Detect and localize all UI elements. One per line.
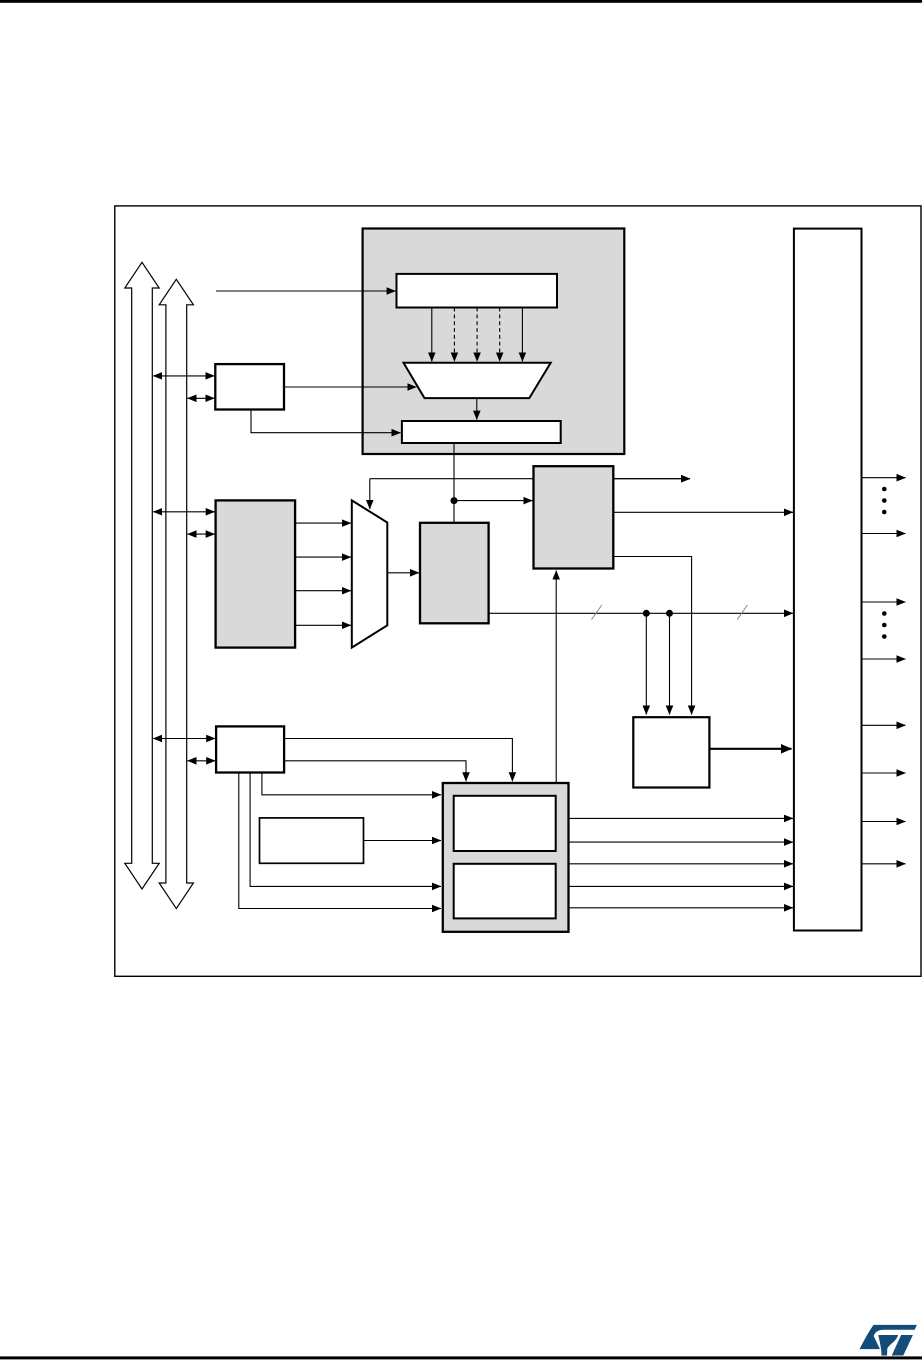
wire shifter to register block	[613, 511, 793, 513]
pin arrow 1	[862, 477, 906, 479]
opcode register U1	[397, 274, 558, 308]
bus arrow 1 (tall double-headed)	[125, 262, 159, 889]
interrupt box C	[633, 717, 709, 787]
box B	[216, 726, 284, 772]
data buffer container (gray)	[443, 783, 569, 932]
decode mux (trapezoid)	[404, 363, 551, 398]
pin arrow 5	[862, 724, 906, 726]
bottom page rule	[0, 1356, 922, 1359]
double wire bus2 to register file	[188, 533, 215, 535]
wire box B to buffer left 1	[262, 773, 441, 795]
wire register mux to ALU	[387, 572, 419, 574]
shifter (gray)	[534, 466, 614, 568]
pin arrow 7	[862, 821, 906, 823]
wire buffer to register block 2	[569, 841, 794, 843]
wire buffer to register block 4	[569, 885, 794, 887]
wire dot2 down to interrupt box	[669, 613, 671, 714]
MDR inner box 1	[454, 796, 556, 851]
wire box D to buffer	[364, 840, 442, 842]
wire shifter out top	[613, 478, 690, 480]
wire branch down into register mux	[369, 479, 371, 509]
wire ALU result bus	[489, 612, 793, 614]
junction dot bus 1	[643, 610, 650, 617]
wire into opcode register	[216, 290, 396, 292]
wire register out 2	[295, 556, 351, 558]
bold wire interrupt to register block	[709, 748, 791, 750]
ST logo	[860, 1325, 917, 1356]
MAR inner box 2	[454, 864, 556, 919]
pin dots group 2	[882, 611, 887, 616]
wire decode mux output	[476, 398, 478, 420]
register file (gray)	[216, 500, 296, 647]
wire decode line 4 (dashed)	[499, 308, 501, 362]
figure frame	[115, 206, 921, 976]
wire decode line 5	[521, 308, 523, 362]
wire decode line 2 (dashed)	[453, 308, 455, 362]
register mux (trapezoid)	[352, 500, 388, 647]
wire register out 4	[295, 624, 351, 626]
wire box B to buffer top 2	[284, 761, 466, 781]
bus width slash 2	[737, 605, 747, 620]
junction dot bus 2	[666, 610, 673, 617]
wire box A to U2	[251, 410, 401, 433]
wire box B to buffer top 1	[284, 739, 512, 782]
wire register out 1	[295, 522, 351, 524]
wire U2 output down	[453, 443, 455, 501]
wire box B to buffer left 2	[250, 773, 441, 887]
wire decode line 3 (dashed)	[476, 308, 478, 362]
wire junction to shifter	[454, 500, 532, 502]
control block (gray)	[363, 229, 625, 455]
wire decode line 1	[431, 308, 433, 362]
I/O register block (tall)	[794, 229, 862, 931]
double wire bus2 to box A	[188, 397, 215, 399]
wire buffer to register block 5	[569, 907, 794, 909]
pin dots group 1	[882, 487, 887, 492]
wire from box A to decode mux	[284, 386, 416, 388]
bus width slash 1	[592, 605, 602, 620]
ALU (gray)	[420, 523, 489, 624]
wire register out 3	[295, 590, 351, 592]
wire horizontal branch with end arrow	[370, 478, 690, 480]
pin arrow 8	[862, 863, 906, 865]
wire box B to buffer left 3	[239, 773, 441, 909]
wire MDR up to shifter	[555, 571, 557, 783]
double wire bus1 to register file	[153, 511, 215, 513]
micro-instruction register U2	[402, 421, 561, 443]
wire buffer to register block 1	[569, 817, 794, 819]
box D	[260, 818, 364, 863]
wire junction down to ALU	[453, 501, 455, 523]
pin arrow 2	[862, 533, 906, 535]
wire dot1 down to interrupt box	[645, 613, 647, 714]
double wire bus1 to box A	[153, 375, 214, 377]
wire buffer to register block 3	[569, 863, 794, 865]
double wire bus2 to box B	[188, 760, 216, 762]
box A	[215, 364, 284, 409]
bus arrow 2 (tall double-headed)	[159, 279, 193, 908]
pin arrow 3	[862, 601, 906, 603]
pin arrow 6	[862, 772, 906, 774]
double wire bus1 to box B	[153, 738, 215, 740]
wire shifter to interrupt box	[613, 557, 691, 715]
pin arrow 4	[862, 658, 906, 660]
junction dot	[451, 497, 458, 504]
top page rule	[0, 0, 922, 3]
